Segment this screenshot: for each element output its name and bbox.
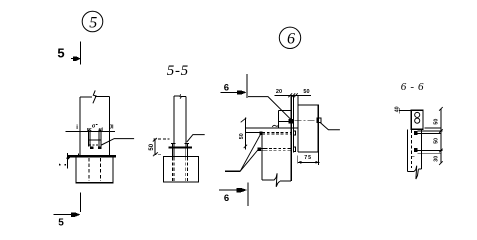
- dim B: dimension line: [154, 139, 156, 155]
- svg-text:20: 20: [276, 89, 282, 95]
- bolt row 1 head: [259, 131, 262, 135]
- section mark 5 bottom: cut line: [80, 193, 82, 213]
- column A right edge: [108, 97, 110, 157]
- member D bottom right: [418, 168, 421, 170]
- section mark 5 top: cut line: [80, 41, 82, 64]
- bolt caps B: [171, 142, 176, 144]
- svg-text:5: 5: [58, 217, 64, 228]
- svg-text:50: 50: [433, 119, 439, 125]
- anchor bolts B above foundation: [171, 143, 173, 157]
- small box on column edge: [317, 118, 321, 122]
- lower member break: [274, 173, 280, 187]
- section mark 5 bottom: arrow: [54, 214, 74, 216]
- bolt row 1 D head: [414, 131, 418, 135]
- base plate A (thick): [67, 155, 116, 157]
- lower member left edge: [261, 135, 263, 180]
- svg-text:6: 6: [224, 193, 229, 204]
- dim 75 line: [297, 161, 319, 163]
- leader to top bolt: [248, 97, 291, 120]
- leader from plate B: [187, 135, 205, 142]
- anchor bolt lines inside column A: [87, 129, 89, 146]
- leader tail: [225, 170, 240, 172]
- svg-text:5: 5: [57, 45, 64, 60]
- level line across column A: [66, 130, 115, 132]
- column B break mark: [180, 94, 181, 98]
- dim C ticks: [241, 118, 247, 123]
- svg-text:rc: rc: [87, 127, 92, 133]
- bolt foot left: [90, 146, 94, 149]
- column A break mark: [93, 90, 96, 103]
- svg-text:40: 40: [394, 106, 400, 112]
- level mark arrowhead: [66, 158, 70, 161]
- lower member bottom left: [262, 179, 275, 181]
- lower member bottom right: [280, 180, 291, 182]
- bracket top: [279, 109, 292, 111]
- member D right edge: [421, 129, 423, 169]
- column face line: [297, 95, 299, 152]
- top bolt head: [288, 119, 293, 124]
- svg-text:50: 50: [303, 89, 309, 95]
- member D bottom left: [408, 171, 415, 173]
- column B top edges: [174, 95, 179, 97]
- base plate B (thick): [169, 146, 192, 148]
- member D break: [414, 166, 418, 179]
- dim B: tick bottom: [153, 152, 158, 156]
- bolt circles: [415, 112, 420, 117]
- svg-text:6: 6: [224, 82, 229, 93]
- section mark 6 bottom: cut line: [247, 183, 249, 206]
- svg-text:6-6: 6-6: [401, 81, 424, 93]
- dim 75 arrows: [298, 161, 302, 164]
- svg-text:50: 50: [433, 138, 439, 144]
- dim ticks: [288, 93, 292, 97]
- detail bubble 6: [279, 27, 300, 48]
- bracket left edge: [278, 110, 280, 128]
- ext line above row1: [425, 127, 441, 129]
- column A top edge left: [80, 96, 92, 98]
- end plate right face: [292, 95, 294, 152]
- bolt row 1 D lines: [418, 130, 443, 132]
- svg-text:Jl: Jl: [109, 125, 114, 131]
- small nub above plate A: [78, 154, 80, 156]
- weld tilde: [272, 125, 279, 127]
- dim D vertical line: [440, 109, 442, 163]
- leader right: [320, 122, 340, 130]
- svg-text:50: 50: [239, 133, 245, 139]
- bracket bottom: [279, 121, 292, 123]
- column section rectangle: [298, 105, 318, 152]
- svg-text:5-5: 5-5: [167, 63, 189, 79]
- bolt row 2 head: [258, 147, 261, 151]
- column A top edge right: [95, 96, 109, 98]
- bolt row 2 nut: [293, 147, 295, 151]
- end plate left face: [290, 95, 292, 181]
- top dimension line: [275, 94, 312, 96]
- column centerline dashed: [295, 120, 317, 122]
- beam top line: [246, 127, 298, 129]
- dim D ticks: [439, 107, 443, 111]
- svg-text:5: 5: [89, 14, 97, 31]
- dim C left: line: [245, 118, 247, 150]
- svg-text:30: 30: [433, 156, 439, 162]
- dim B: extension bottom (dashed): [153, 154, 163, 156]
- section mark 6 bottom: arrow: [219, 189, 239, 191]
- level mark dots: [59, 164, 61, 166]
- beam second line: [246, 132, 260, 134]
- short dashed stub: [412, 155, 416, 157]
- column B right edge: [185, 97, 187, 147]
- column A left edge: [79, 97, 81, 156]
- bolt tie line: [88, 139, 101, 141]
- bolt foot right: [98, 146, 102, 149]
- section mark 6 top: arrow: [221, 91, 239, 93]
- detail bubble 5: [82, 11, 103, 32]
- svg-text:75: 75: [304, 155, 312, 161]
- svg-text:6: 6: [287, 30, 295, 47]
- bolt row 1 shank dashed: [262, 131, 291, 133]
- foundation A: [76, 157, 113, 183]
- dashed line between bolt feet: [89, 144, 99, 146]
- dim B: tick top: [153, 138, 157, 142]
- dim B: extension top (dashed): [153, 138, 169, 140]
- member D left edge: [407, 129, 409, 171]
- level mark vertical: [66, 153, 68, 168]
- bolt row 2 D lines: [418, 149, 443, 151]
- plate D: [411, 110, 423, 129]
- column B left edge: [173, 96, 175, 146]
- member D hidden line: [411, 130, 413, 168]
- bolt row 2 shank: [261, 147, 265, 149]
- svg-text:σ: σ: [92, 123, 96, 129]
- dim D left line: [399, 110, 411, 112]
- svg-text:50: 50: [149, 143, 155, 150]
- svg-text:i: i: [76, 125, 78, 131]
- bolt leaders: [240, 135, 260, 171]
- hidden anchor bolts in foundation A: [88, 158, 90, 181]
- foundation B: [164, 156, 199, 182]
- leader from bolts A: [101, 139, 134, 145]
- dim 75 extensions: [297, 156, 299, 164]
- hidden anchor bolts B: [171, 157, 173, 181]
- bolt row 2 D head: [414, 148, 418, 152]
- bolt row 1 nut: [293, 131, 295, 135]
- dim D left tick: [398, 108, 400, 113]
- section mark 5 top: arrow: [71, 58, 79, 60]
- section mark 6 top: cut line: [246, 74, 248, 98]
